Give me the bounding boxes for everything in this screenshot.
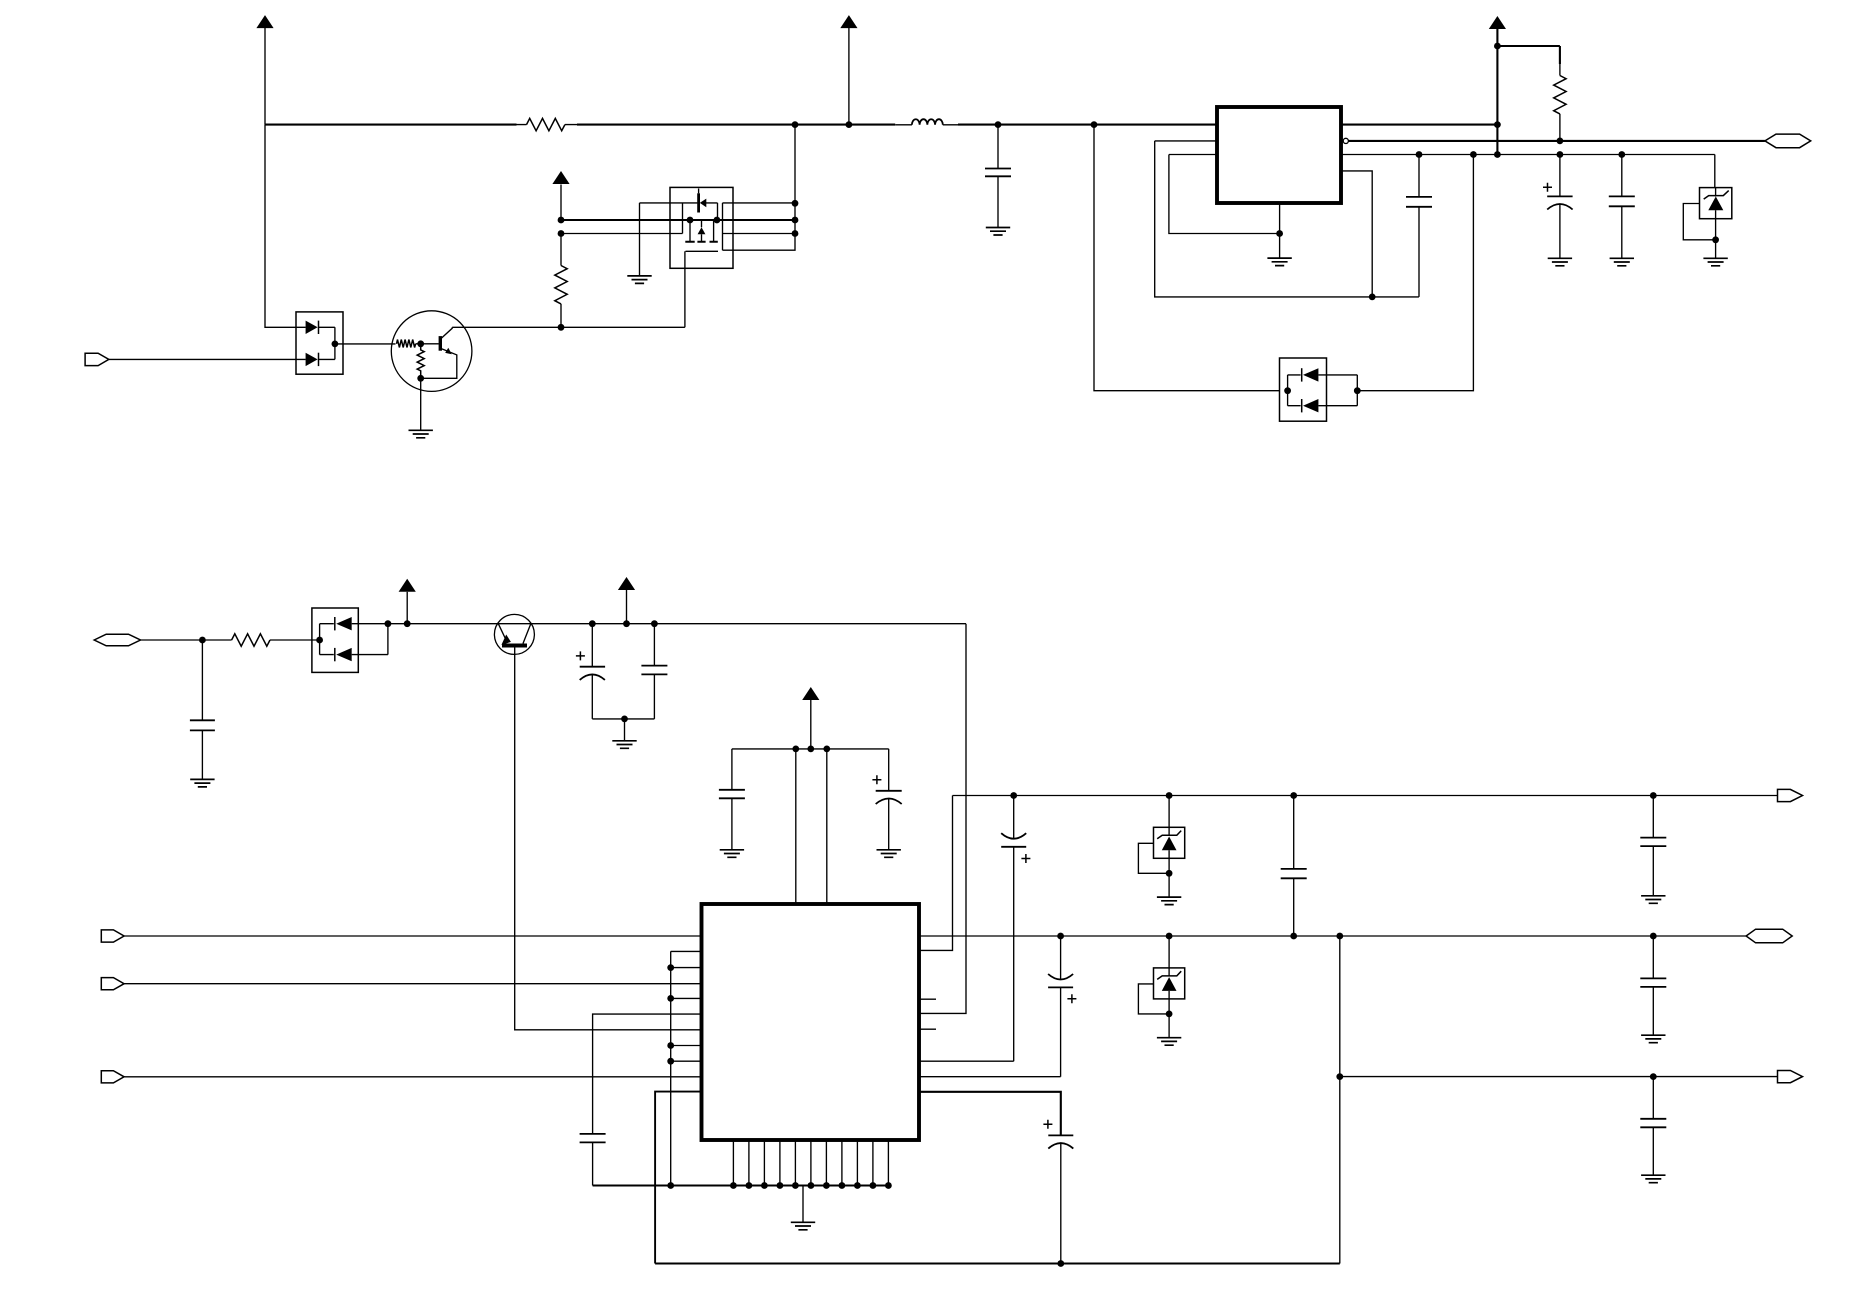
ground C17 — [1641, 1175, 1665, 1183]
port P6 input — [101, 1071, 701, 1083]
diode inside Q2 — [683, 189, 718, 234]
wire U2 bottom pin stubs — [733, 1140, 888, 1186]
transistor Q1 circle — [391, 311, 472, 392]
ground U1 — [1267, 258, 1291, 266]
node dots on y154.5 — [1470, 151, 1625, 158]
wire U2 stub R3 — [919, 998, 936, 1000]
wire cap bottoms to ground — [592, 716, 654, 741]
ground C6/C7 — [612, 741, 636, 749]
zener D10 in box — [1138, 792, 1184, 905]
node on y297 — [1369, 294, 1376, 301]
capacitor C6 polarized — [576, 620, 605, 719]
wire vert x1339.8 — [1336, 933, 1343, 1264]
ground C9 — [877, 850, 901, 858]
wire box to transistor — [335, 343, 396, 345]
node junction main/vert795 — [792, 121, 799, 128]
mosfet Q2 package box — [670, 187, 733, 268]
resistor R1 — [527, 118, 565, 130]
wire U1 FB line y154.5 — [1341, 154, 1715, 156]
power arrow VCC3 (gate driver rail) — [552, 171, 569, 237]
wire resistor leads R1 — [517, 124, 578, 126]
power arrow VCC7 — [802, 687, 819, 749]
wire line y795.5 — [953, 795, 1778, 797]
wire driver collector line y327 — [452, 326, 685, 328]
wire gate down to driver — [684, 251, 686, 327]
collector Q1 — [442, 327, 453, 338]
resistor R2 — [555, 234, 567, 331]
port P1 input — [85, 353, 296, 365]
wire vert x795 down — [723, 125, 796, 251]
capacitor C3 polarized — [1543, 155, 1573, 259]
diode D2 — [306, 353, 319, 366]
wire U2 pin R6 — [919, 1060, 1014, 1062]
resistor R5 base (in Q1) — [397, 340, 416, 348]
ground D7 — [1703, 258, 1727, 266]
transistor Q3 internals — [498, 624, 531, 646]
power arrow VCC4 — [1489, 16, 1506, 155]
mosfet channel stubs Q2 — [685, 217, 720, 242]
controller U2 — [702, 904, 920, 1140]
capacitor C2 — [1406, 151, 1432, 297]
wire U1 pin4 right to y297 — [1341, 171, 1372, 297]
pin circle U1 output — [1343, 138, 1348, 143]
node junction main/vert1094 — [1091, 121, 1098, 128]
power arrow VCC1 — [256, 15, 273, 125]
wire left rail x1154.7 — [1155, 141, 1419, 297]
wire base — [416, 340, 439, 347]
diode D5 — [1302, 368, 1319, 381]
capacitor C16 — [1640, 933, 1666, 1036]
zener D7 in box — [1683, 155, 1732, 259]
wire main bus right — [958, 124, 1217, 126]
wire right inner of Q2 box — [723, 203, 796, 250]
wire U1 output line y141 — [1349, 140, 1765, 142]
wire U2 pin R1 line y936 — [919, 935, 1746, 937]
wire U1 VIN out right — [1341, 121, 1501, 128]
wire U2 pin L11 thick down — [655, 1092, 701, 1264]
power arrow VCC6 — [618, 577, 635, 627]
port P8 output — [1778, 789, 1803, 801]
capacitor C15 — [1640, 792, 1666, 896]
capacitor C9 polarized — [872, 749, 901, 850]
power arrow VCC2 — [840, 15, 857, 128]
port P4 input — [101, 930, 701, 942]
capacitor C11 polarized — [1001, 792, 1030, 1061]
wire bottom long rail — [655, 1263, 1340, 1265]
base bar Q1 — [439, 336, 442, 351]
wire U1 pin FB left — [1169, 154, 1217, 156]
capacitor C13 polarized — [1043, 1120, 1073, 1267]
diode D9 — [335, 648, 352, 661]
node dots on x795 — [792, 200, 799, 237]
gate bar Q2 — [686, 250, 719, 252]
wire vert x265 to diode box — [265, 125, 296, 328]
resistor R3 — [1554, 64, 1566, 144]
resistor R4 — [232, 634, 312, 646]
capacitor C8 — [719, 749, 745, 850]
inductor L1 — [895, 119, 958, 125]
capacitor C12 polarized — [1048, 933, 1076, 1077]
ground C15 — [1641, 896, 1665, 904]
ground C5 — [190, 779, 214, 787]
ground C16 — [1641, 1035, 1665, 1043]
ground for C1 — [986, 228, 1010, 236]
capacitor C1 — [985, 121, 1011, 227]
wire Q3 base down and to U2 — [515, 648, 702, 1030]
wire y623.7 to pin R4 of U2 — [919, 624, 966, 1014]
diode pair box D1/D2 — [296, 312, 343, 374]
port P3 input hexagon — [94, 634, 231, 646]
transistor Q3 circle — [494, 614, 534, 654]
ground U2 — [791, 1186, 815, 1230]
port P9 output — [1778, 1071, 1803, 1083]
wire main bus mid — [577, 124, 895, 126]
ground C8 — [720, 850, 744, 858]
wire U2 left rail pins — [667, 951, 701, 1189]
capacitor C5 — [190, 640, 215, 779]
wire U1 pin EN left — [1155, 140, 1217, 142]
regulator U1 — [1217, 107, 1341, 203]
capacitor C17 — [1640, 1073, 1666, 1175]
ground C4 — [1610, 258, 1634, 266]
wire line y1076.6 — [1340, 1076, 1778, 1078]
wire thick rail y220 — [561, 219, 795, 221]
wire y623.7 rail — [388, 623, 966, 625]
wire U2 stub R5 — [919, 1028, 936, 1030]
capacitor C10 with wire to U2 — [580, 1014, 702, 1185]
wire vert1094 down to diode pair — [1094, 125, 1280, 391]
wire U1 gnd pin — [1276, 203, 1283, 258]
wire emitter to ground — [409, 378, 433, 438]
resistor R6 (in Q1) — [417, 344, 424, 379]
wire left rail x1168.9 — [1169, 155, 1280, 234]
capacitor C4 — [1609, 155, 1635, 259]
wire diode pair to FB line — [1357, 155, 1473, 391]
ground C3 — [1548, 258, 1572, 266]
port P5 input — [101, 978, 701, 990]
wire branch to R3 — [1497, 46, 1560, 64]
wire U2 pin R8 thick — [919, 1092, 1061, 1136]
diode D8 — [335, 617, 352, 630]
zener D11 in box — [1138, 933, 1184, 1046]
diode pair box D8/D9 — [312, 608, 391, 672]
port P2 output hexagon — [1765, 134, 1811, 148]
wire main bus left — [265, 124, 517, 126]
diode D6 — [1302, 399, 1319, 412]
capacitor C14 — [1281, 792, 1307, 939]
wire U2 VCC pins top — [732, 746, 889, 905]
diode D1 — [306, 321, 319, 334]
wire U2 pin R7 — [919, 1076, 1061, 1078]
wire U2 pin R2 up to line y795.5 — [919, 796, 953, 951]
ground left of Q2 box — [627, 203, 682, 284]
capacitor C7 — [641, 620, 667, 719]
wire y233.5 — [561, 233, 683, 235]
power arrow VCC5 — [399, 579, 416, 627]
wire U2 ground rail — [593, 1184, 889, 1186]
emitter Q1 with arrow — [417, 348, 456, 382]
port P7 output hexagon — [1746, 929, 1792, 943]
node dots ground rail — [730, 1182, 892, 1189]
diode pair box D5/D6 — [1280, 358, 1361, 421]
